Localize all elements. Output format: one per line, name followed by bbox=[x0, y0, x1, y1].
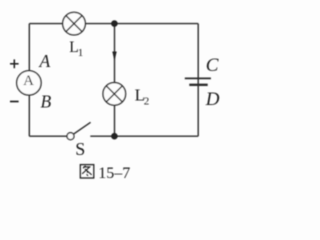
svg-text:15–7: 15–7 bbox=[98, 165, 130, 182]
svg-text:1: 1 bbox=[78, 47, 84, 59]
svg-text:A: A bbox=[39, 51, 51, 71]
svg-text:D: D bbox=[205, 89, 220, 110]
svg-text:S: S bbox=[75, 139, 85, 159]
svg-text:2: 2 bbox=[144, 96, 150, 108]
svg-text:A: A bbox=[23, 73, 34, 89]
svg-text:B: B bbox=[41, 92, 52, 112]
svg-text:C: C bbox=[206, 55, 219, 76]
